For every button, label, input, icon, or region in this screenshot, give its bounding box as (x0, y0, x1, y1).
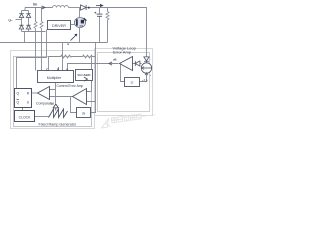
svg-text:CLOCK: CLOCK (19, 115, 31, 119)
svg-text:U~: U~ (9, 19, 13, 23)
svg-text:+7.5: +7.5 (142, 79, 148, 83)
svg-text:Q: Q (17, 101, 20, 105)
svg-text:Error Amp: Error Amp (113, 50, 132, 55)
svg-text:vB: vB (113, 58, 117, 62)
svg-text:Iin: Iin (33, 2, 37, 6)
svg-text:Vm=AB/C: Vm=AB/C (77, 73, 91, 77)
svg-text:DRIVER: DRIVER (52, 24, 66, 28)
svg-text:Multiplier: Multiplier (47, 76, 62, 80)
svg-text:-: - (150, 57, 151, 61)
svg-text:Zf: Zf (131, 81, 134, 85)
svg-text:Q: Q (17, 92, 20, 96)
svg-text:Fixed Ramp Generator: Fixed Ramp Generator (39, 122, 77, 126)
svg-text:Zf: Zf (82, 111, 85, 115)
svg-text:Current Error Amp: Current Error Amp (57, 84, 84, 88)
